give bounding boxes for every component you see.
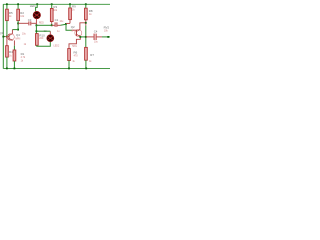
wire R1 bottom lead <box>13 61 15 69</box>
wire R5 bottom lead to base node <box>6 21 8 37</box>
transistor Q4 <box>7 33 20 40</box>
svg-text:NPN: NPN <box>71 30 76 32</box>
background <box>0 0 110 75</box>
wire R5 top lead <box>6 4 8 9</box>
node right edge junction <box>107 36 109 38</box>
node ground R4 <box>6 68 8 70</box>
svg-text:RV2: RV2 <box>104 25 110 29</box>
LED D1 <box>33 11 44 24</box>
resistor R2 <box>17 9 25 20</box>
wire R9 top lead <box>69 4 71 8</box>
svg-text:50%: 50% <box>72 46 77 48</box>
resistor R7 <box>85 47 95 63</box>
wire LED1 cathode lead <box>35 19 37 26</box>
svg-text:LED: LED <box>30 4 36 8</box>
wire bottom ground rail <box>3 67 110 69</box>
wire Q4 collector lead <box>11 30 13 34</box>
svg-text:RED: RED <box>39 23 44 25</box>
svg-text:4.7k: 4.7k <box>21 56 26 59</box>
wire cathode node down <box>35 25 37 33</box>
svg-text:Q4: Q4 <box>16 33 20 37</box>
wire R4 bottom lead <box>6 57 8 68</box>
wire R6 bottom lead <box>68 61 70 69</box>
wire R8 bottom lead red <box>85 20 87 26</box>
resistor R8 <box>85 8 93 20</box>
wire LED1 anode drop <box>36 4 38 11</box>
wire LED node to R3 node <box>36 24 51 26</box>
wire LED2 to cathode column <box>36 30 50 32</box>
resistor R1 <box>13 50 26 63</box>
svg-text:Q2: Q2 <box>71 25 75 29</box>
wire Q2 emitter down left down to R6 <box>69 36 80 48</box>
wire base stub from left rail <box>3 36 5 38</box>
node top rail R2 <box>17 3 19 5</box>
wire R7 bottom lead <box>85 60 87 68</box>
node top rail R8 <box>85 3 87 5</box>
capacitor C1 <box>52 18 64 33</box>
node emitter C4 wire <box>79 36 81 38</box>
resistor R4 <box>6 46 13 58</box>
resistor R5 <box>6 9 13 20</box>
node R8 column C4 wire <box>85 36 87 38</box>
node base R5/R4 junction <box>6 36 8 38</box>
wire R3 top lead <box>51 4 53 8</box>
wire R3 bottom lead green part <box>51 24 53 26</box>
resistor R6 <box>68 46 79 63</box>
wire R10 bottom to LED2 bottom <box>37 42 51 47</box>
node R3 bottom junction <box>51 24 53 26</box>
capacitor C4 <box>86 29 102 43</box>
node top rail R9 <box>69 3 71 5</box>
node ground R7 <box>85 68 87 70</box>
node ground R6 <box>68 68 70 70</box>
node top rail LED <box>36 3 38 5</box>
svg-text:Q1: Q1 <box>0 31 4 35</box>
node left rail base <box>2 36 4 38</box>
svg-text:R5: R5 <box>9 11 13 15</box>
svg-text:C1: C1 <box>55 18 59 22</box>
wire emitter green segment <box>13 46 15 50</box>
svg-text:C4: C4 <box>94 29 98 33</box>
wire C4 net left segment <box>80 36 86 38</box>
wire left vertical <box>2 4 4 68</box>
node ground R1 <box>14 68 16 70</box>
wire R8 lead green to C4 wire <box>85 26 87 48</box>
node top rail R5 <box>6 3 8 5</box>
wire C1 to node 66 <box>61 24 67 25</box>
node R10 LED2 tap <box>36 30 38 32</box>
resistor R3 <box>50 5 57 22</box>
node top rail R3 <box>51 3 53 5</box>
wire Q4 collector horizontal <box>12 29 18 31</box>
wire R2 top lead <box>17 4 19 9</box>
wire Q2 base red segment <box>72 29 76 31</box>
node corner at collector wire <box>17 29 19 31</box>
transistor Q2 <box>71 25 82 36</box>
node C3 tap on R2 lead <box>17 23 19 25</box>
wire Q4 base red segment <box>5 36 9 38</box>
wire R3 bottom lead red part <box>51 22 53 24</box>
wire R9 bottom corner to node 66 <box>66 22 70 24</box>
svg-text:R3: R3 <box>53 5 57 9</box>
resistor R10 below LED <box>36 33 46 45</box>
wire Q2 collector up and right to R8 lead <box>80 23 86 30</box>
node collector R8 <box>85 22 87 24</box>
svg-text:R7: R7 <box>90 53 94 57</box>
wire node 66 down and to Q2 base <box>66 24 72 30</box>
wire C4 to right edge <box>102 36 110 38</box>
wire R8 top lead <box>85 4 87 8</box>
svg-text:LED2: LED2 <box>54 45 60 47</box>
svg-text:R2: R2 <box>20 11 24 15</box>
svg-text:NPN: NPN <box>15 38 20 40</box>
svg-text:470: 470 <box>74 54 79 57</box>
wire LED2 top pin <box>49 31 51 35</box>
wire R9 bottom lead <box>69 20 71 24</box>
wire R2 bottom lead down to collector corner <box>17 21 19 30</box>
svg-text:R10: R10 <box>39 33 45 37</box>
resistor R9 <box>69 5 76 20</box>
wire R4 top lead (red) <box>6 37 8 46</box>
wire top power rail <box>3 3 110 5</box>
wire Q4 emitter lead <box>13 40 15 45</box>
node LED cathode junction <box>36 24 38 26</box>
capacitor C3 <box>18 18 36 46</box>
node mid junction 66 <box>65 23 67 25</box>
LED D2 <box>47 35 60 48</box>
